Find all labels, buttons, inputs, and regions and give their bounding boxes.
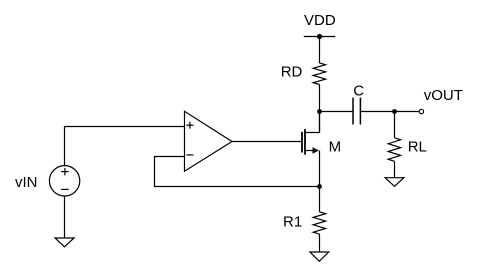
node source junction	[317, 184, 322, 189]
node drain junction	[317, 109, 322, 114]
resistor R1	[313, 212, 325, 234]
wire op-amp - input feedback	[155, 157, 320, 187]
ground (vIN)	[55, 238, 74, 247]
wire vIN to op-amp + input	[65, 127, 185, 166]
op-amp U1	[185, 111, 233, 171]
wire output node to terminal	[395, 111, 420, 113]
wire VDD to RD	[319, 37, 321, 63]
wire vIN source to ground	[64, 196, 66, 238]
ground (R1)	[310, 252, 329, 261]
wire source node to R1	[319, 187, 321, 212]
svg-text:RD: RD	[281, 64, 303, 81]
svg-text:VDD: VDD	[304, 12, 336, 29]
svg-text:R1: R1	[283, 214, 302, 231]
wire op-amp output to gate	[232, 141, 301, 143]
resistor RD	[313, 63, 325, 85]
node output junction	[392, 109, 397, 114]
resistor RL	[388, 138, 400, 162]
wire RL to ground	[394, 161, 396, 177]
svg-text:vOUT: vOUT	[424, 87, 463, 104]
terminal vOUT	[419, 109, 423, 113]
ground (RL)	[385, 178, 404, 187]
wire capacitor to output node	[360, 111, 394, 113]
svg-text:M: M	[329, 139, 342, 156]
wire output node to RL	[394, 112, 396, 138]
capacitor C	[353, 98, 360, 125]
transistor M	[302, 112, 320, 187]
wire R1 to ground	[319, 234, 321, 252]
svg-text:vIN: vIN	[15, 174, 38, 191]
VDD supply symbol	[304, 34, 335, 39]
wire RD to drain node	[319, 85, 321, 133]
wire drain node to capacitor	[320, 111, 354, 113]
svg-text:RL: RL	[408, 138, 427, 155]
svg-text:C: C	[353, 83, 364, 100]
voltage source vIN	[49, 166, 79, 196]
